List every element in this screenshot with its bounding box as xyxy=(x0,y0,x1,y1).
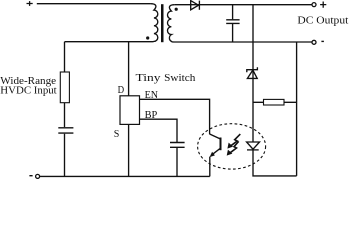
svg-text:S: S xyxy=(114,129,120,140)
svg-text:EN: EN xyxy=(145,90,158,101)
diode D1 (output rectifier) xyxy=(191,1,199,10)
phototransistor emitter diagonal xyxy=(211,148,220,155)
resistor R-bias wires xyxy=(253,101,297,103)
wire LED cathode to secondary return rail xyxy=(253,150,297,176)
node + input label xyxy=(27,1,33,6)
svg-text:BP: BP xyxy=(145,110,158,121)
optocoupler U2 dashed ellipse xyxy=(198,124,266,169)
capacitor C-out plates xyxy=(226,20,239,24)
transformer T1 primary winding xyxy=(65,4,158,42)
resistor R-in xyxy=(60,72,69,103)
node + output label xyxy=(320,2,326,8)
svg-text:DC Output: DC Output xyxy=(297,16,348,27)
svg-text:Switch: Switch xyxy=(164,73,195,84)
phototransistor Q1 base bar xyxy=(220,138,222,151)
capacitor C-out vertical wires xyxy=(232,5,234,42)
photon arrow 1 xyxy=(228,134,240,148)
transformer polarity dot (primary) xyxy=(146,36,149,39)
wire emitter to ground rail xyxy=(209,157,211,177)
terminal + output xyxy=(312,3,316,7)
terminal - input xyxy=(36,174,40,178)
wire source pin to ground rail xyxy=(128,124,130,176)
zener diode VR1 xyxy=(247,70,257,78)
wire - output vertical xyxy=(296,42,298,176)
node - output label xyxy=(321,40,324,42)
wire secondary top to diode and + output xyxy=(175,4,313,6)
photon arrow 2 xyxy=(228,141,239,154)
wire input + top rail xyxy=(37,3,151,5)
wire BP pin xyxy=(140,119,178,176)
op IC U1 TinySwitch box xyxy=(120,96,140,125)
LED of optocoupler xyxy=(247,142,260,149)
wire EN pin to phototransistor collector xyxy=(140,99,210,134)
phototransistor emitter arrowhead xyxy=(210,152,215,157)
capacitor C-in plates xyxy=(58,128,73,133)
wire feedback vertical from + output xyxy=(252,5,254,142)
svg-text:D: D xyxy=(118,85,125,96)
terminal - output xyxy=(312,40,316,44)
wire input branch vertical xyxy=(64,42,66,177)
resistor R-bias xyxy=(264,99,285,105)
svg-text:HVDC Input: HVDC Input xyxy=(0,86,57,97)
transformer core xyxy=(161,4,164,42)
capacitor C-bp plates xyxy=(170,143,185,148)
transformer T1 secondary winding xyxy=(167,5,312,42)
node - input label xyxy=(29,175,32,177)
wire primary ground rail xyxy=(40,175,210,177)
svg-text:Tiny: Tiny xyxy=(136,73,161,84)
wire drain riser xyxy=(128,42,130,96)
transformer polarity dot (secondary) xyxy=(175,8,178,11)
phototransistor collector diagonal xyxy=(210,134,221,139)
